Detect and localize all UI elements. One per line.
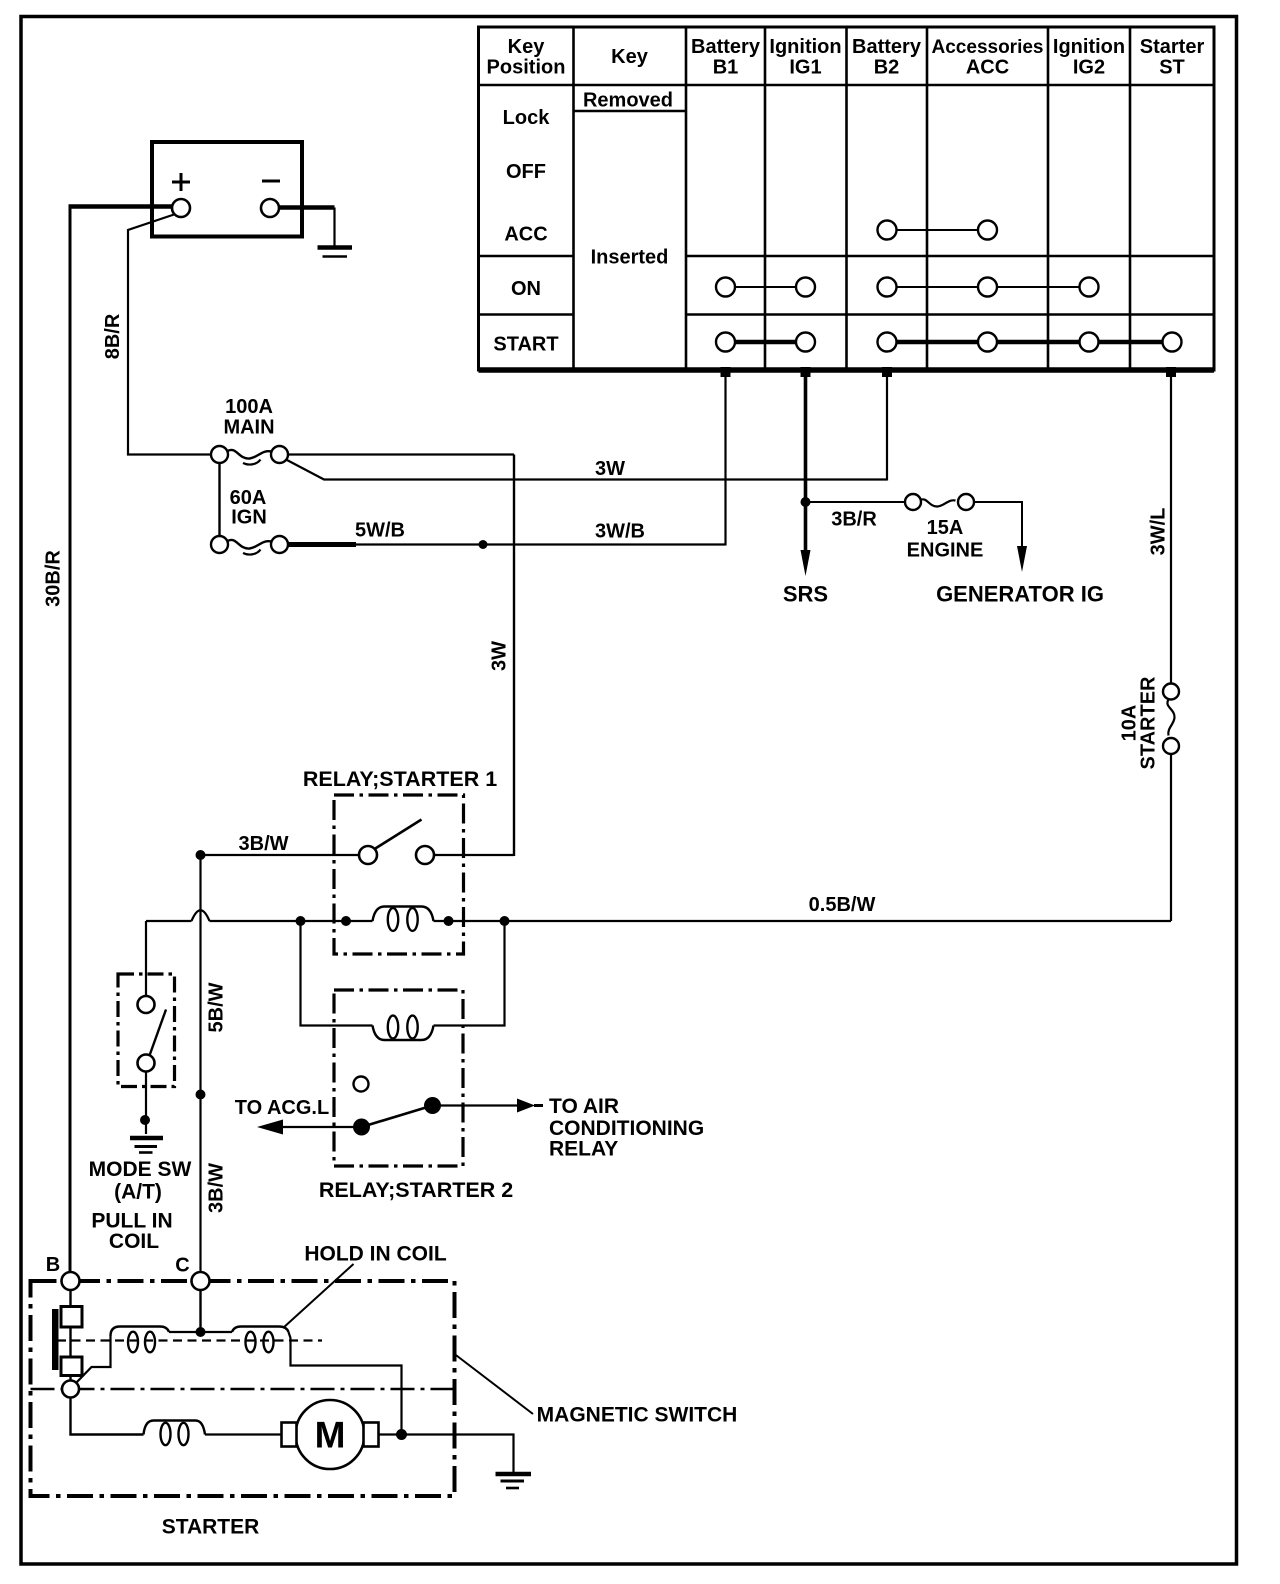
battery - terminal	[261, 199, 279, 217]
battery + terminal	[172, 199, 190, 217]
wire 3W/B: to B1 column	[356, 543, 726, 545]
svg-text:100A: 100A	[225, 396, 273, 418]
ON row contacts B2-ACC-IG2	[878, 278, 1099, 297]
relay starter 1 box (dash-dot)	[334, 795, 464, 954]
junction dots on 0.5B/W line	[296, 916, 510, 926]
svg-text:3B/W: 3B/W	[206, 1163, 228, 1213]
svg-text:30B/R: 30B/R	[43, 550, 65, 607]
svg-text:Starter: Starter	[1140, 36, 1205, 58]
terminal C	[192, 1272, 210, 1290]
ON row contacts B1-IG1	[716, 278, 815, 297]
contact plate bar	[52, 1309, 59, 1370]
svg-text:Removed: Removed	[583, 90, 673, 112]
wire between fuses	[218, 463, 220, 536]
svg-text:ENGINE: ENGINE	[907, 540, 984, 562]
wire: battery - to right (thick)	[279, 205, 335, 210]
svg-text:START: START	[493, 334, 558, 356]
START row contacts B1-IG1 (closed, thick)	[716, 333, 815, 352]
starter ground	[496, 1474, 532, 1488]
motor M	[282, 1400, 379, 1469]
svg-text:Accessories: Accessories	[932, 37, 1044, 58]
terminal B	[62, 1272, 80, 1290]
junction dot 3B/W	[196, 850, 206, 860]
relay 2 coil (mirrored)	[373, 1016, 434, 1040]
svg-text:GENERATOR IG: GENERATOR IG	[936, 582, 1104, 607]
table header text: Key Position	[487, 36, 1205, 356]
starter box (dash-dot)	[31, 1281, 455, 1496]
relay 1 switch	[359, 820, 434, 865]
ACC row contacts B2-ACC	[878, 221, 998, 240]
svg-text:Ignition: Ignition	[1053, 36, 1125, 58]
splice dot on 3W/B	[479, 540, 488, 549]
relay starter 2 box (dash-dot)	[334, 990, 463, 1166]
hold-in coil	[232, 1327, 289, 1353]
svg-text:5W/B: 5W/B	[355, 520, 405, 542]
fuse 60A IGN	[211, 536, 288, 555]
relay 1 coil	[373, 907, 434, 931]
leader line HOLD IN COIL	[283, 1264, 354, 1328]
wire between contact squares	[69, 1327, 71, 1357]
svg-text:STARTER: STARTER	[162, 1516, 260, 1539]
svg-text:(A/T): (A/T)	[114, 1181, 162, 1204]
wire node down and right to field coil	[71, 1398, 144, 1435]
pull-in coil	[111, 1327, 170, 1353]
wire to 15A fuse	[806, 501, 906, 503]
fuse 100A MAIN	[211, 446, 288, 465]
wire B terminal to contact	[69, 1290, 71, 1307]
relay 2 upper contact (open)	[354, 1077, 369, 1092]
wire hold-in coil return to motor line	[289, 1332, 402, 1435]
wire 3W: 100A fuse to corner at x=514	[288, 453, 514, 455]
svg-text:IGN: IGN	[231, 507, 267, 529]
svg-text:C: C	[175, 1255, 189, 1277]
svg-text:Key: Key	[611, 46, 649, 68]
svg-text:IG2: IG2	[1073, 57, 1105, 79]
svg-text:ON: ON	[511, 278, 541, 300]
svg-text:8B/R: 8B/R	[102, 313, 124, 359]
svg-text:RELAY;STARTER 2: RELAY;STARTER 2	[319, 1178, 513, 1202]
wire ST vertical from table to 10A fuse	[1170, 377, 1172, 684]
wire 3B/W into relay 1	[201, 854, 360, 856]
MODE SW box (dash-dot)	[118, 974, 175, 1087]
svg-text:MODE SW: MODE SW	[89, 1158, 192, 1181]
wire IG1 vertical (thick) to SRS arrow	[804, 377, 808, 552]
wire 5B/W: relay1 junction down	[199, 855, 201, 1273]
mode switch ground	[130, 1138, 163, 1153]
fuse 10A STARTER (vertical)	[1163, 684, 1179, 755]
svg-text:Ignition: Ignition	[769, 36, 841, 58]
wire 30B/R: left vertical from battery + down to terminal B	[69, 207, 72, 1273]
svg-text:3W: 3W	[489, 641, 511, 671]
arrow to GENERATOR IG	[1017, 546, 1027, 572]
leader line MAGNETIC SWITCH	[455, 1354, 534, 1414]
svg-text:0.5B/W: 0.5B/W	[809, 894, 876, 916]
svg-text:M: M	[315, 1415, 346, 1456]
svg-text:15A: 15A	[927, 517, 964, 539]
arrow to SRS	[801, 550, 811, 576]
wire: - terminal down to ground	[333, 208, 335, 247]
svg-text:MAGNETIC SWITCH: MAGNETIC SWITCH	[537, 1404, 738, 1427]
label TO AIR CONDITIONING RELAY	[549, 1095, 704, 1161]
svg-text:3W/B: 3W/B	[595, 521, 645, 543]
wire 8B/R: from + terminal diagonal and down to 100A fuse	[128, 215, 211, 455]
wire mode switch to ground	[145, 1072, 147, 1135]
wire: battery + to left vertical (thick)	[69, 204, 174, 209]
wire 3W vertical: down to relay starter 1 contact	[513, 455, 515, 857]
table column lines	[574, 27, 1131, 370]
svg-text:Position: Position	[487, 57, 566, 79]
wire 3W: diagonal from 100A fuse then right to B2 column	[286, 460, 887, 480]
svg-text:ACC: ACC	[966, 57, 1009, 79]
svg-text:B2: B2	[874, 57, 900, 79]
svg-text:RELAY: RELAY	[549, 1138, 618, 1161]
svg-text:3W: 3W	[595, 458, 625, 480]
svg-text:IG1: IG1	[789, 57, 821, 79]
svg-text:5B/W: 5B/W	[206, 982, 228, 1032]
wire pull-in coil to C junction	[169, 1331, 232, 1333]
svg-text:Battery: Battery	[691, 36, 761, 58]
mode switch contacts and arm	[138, 996, 167, 1072]
svg-text:ST: ST	[1159, 57, 1185, 79]
wire field coil to motor	[205, 1433, 282, 1435]
table row lines	[479, 85, 1215, 315]
wire B1 vertical from table	[724, 377, 726, 546]
junction dot IG1/15A	[801, 497, 811, 507]
wire B2 vertical from table	[886, 377, 888, 481]
wire 15A fuse to GENERATOR IG arrow	[974, 502, 1022, 547]
svg-text:3B/W: 3B/W	[239, 833, 289, 855]
wire lower square to node	[69, 1376, 71, 1382]
svg-text:SRS: SRS	[783, 582, 828, 607]
ignition switch table: outer border	[479, 27, 1215, 370]
junction dot pull-in/hold-in	[196, 1327, 206, 1337]
magnetic switch contact: upper square	[61, 1307, 82, 1328]
svg-text:COIL: COIL	[109, 1230, 159, 1253]
svg-text:B1: B1	[713, 57, 739, 79]
wire: 0.5B/W down to MODE SW	[145, 921, 147, 997]
wire motor to ground	[379, 1435, 514, 1473]
junction dot on ground lead	[140, 1115, 150, 1125]
svg-text:Inserted: Inserted	[591, 247, 669, 269]
splice dot 5B/W-3B/W	[196, 1090, 206, 1100]
svg-text:TO AIR: TO AIR	[549, 1095, 619, 1118]
wire 5W/B thick segment from 60A fuse	[288, 542, 356, 547]
junction dot motor/hold-in return	[396, 1429, 407, 1440]
wire/arrow TO ACG.L (left)	[257, 1120, 362, 1135]
svg-text:B: B	[46, 1254, 60, 1276]
field coil	[144, 1421, 206, 1446]
node circle on divider	[62, 1381, 79, 1398]
svg-text:ACC: ACC	[504, 224, 547, 246]
svg-text:HOLD IN COIL: HOLD IN COIL	[304, 1243, 446, 1266]
battery	[152, 142, 302, 237]
svg-text:TO ACG.L: TO ACG.L	[235, 1097, 329, 1119]
wire relay 2 coil left branch	[301, 921, 373, 1026]
svg-text:OFF: OFF	[506, 161, 546, 183]
dashed mechanical link line	[57, 1339, 322, 1341]
svg-text:MAIN: MAIN	[223, 417, 274, 439]
fuse 15A ENGINE	[905, 494, 974, 510]
pull-in coil feed from contact node	[76, 1336, 111, 1384]
wire/arrow to air conditioning relay (right)	[433, 1099, 544, 1113]
START row contacts B2-ACC-IG2-ST (closed, thick)	[878, 333, 1182, 352]
wire C terminal down to pull-in coil junction	[199, 1290, 201, 1332]
wire 0.5B/W horizontal (left part, with hop over 3B/W wire)	[146, 910, 1171, 921]
svg-text:3B/R: 3B/R	[831, 509, 877, 531]
svg-text:Key: Key	[508, 36, 546, 58]
svg-text:STARTER: STARTER	[1138, 676, 1160, 770]
svg-text:3W/L: 3W/L	[1148, 508, 1170, 556]
internal divider (dash-dot)	[31, 1388, 455, 1390]
terminal squares under table B1, IG1, B2, ST	[721, 367, 1177, 377]
wire relay 2 coil right branch	[434, 921, 505, 1026]
svg-text:RELAY;STARTER 1: RELAY;STARTER 1	[303, 767, 497, 791]
wire relay 1 right contact to 3W vertical	[434, 854, 515, 856]
magnetic switch contact: lower square	[61, 1357, 82, 1376]
relay 2 switch arm with contact dots	[353, 1097, 441, 1136]
battery ground	[318, 248, 353, 257]
svg-text:Battery: Battery	[852, 36, 922, 58]
wire ST from 10A fuse down to 0.5B/W line	[1170, 754, 1172, 921]
svg-text:Lock: Lock	[503, 107, 551, 129]
